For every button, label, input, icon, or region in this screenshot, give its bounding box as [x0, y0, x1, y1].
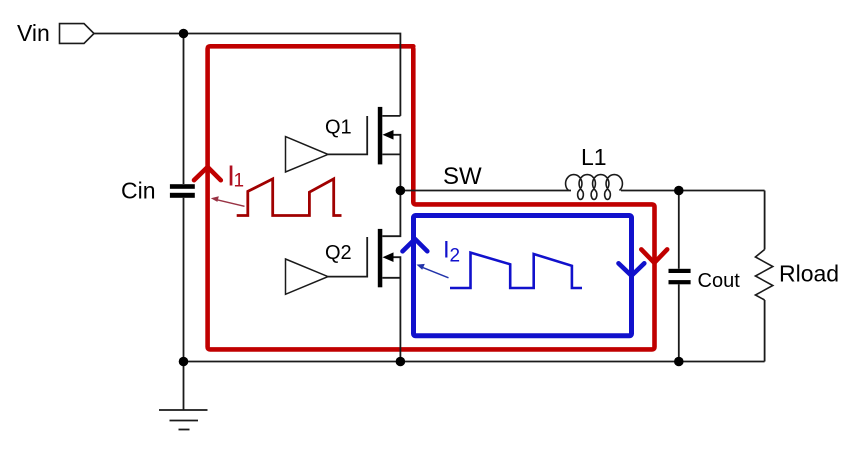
svg-text:Cout: Cout [698, 270, 741, 292]
node SW junction [396, 186, 406, 196]
resistor Rload [755, 250, 772, 301]
transistor Q1 (high-side NMOS) [328, 107, 400, 191]
wire: Vin top rail [94, 34, 400, 116]
inductor L1 [566, 175, 623, 200]
svg-text:Q1: Q1 [325, 116, 352, 138]
blue waveform (Q2 current) [450, 253, 582, 288]
svg-text:1: 1 [234, 170, 245, 191]
ground [159, 362, 208, 430]
node: ground rail right junction [674, 357, 684, 367]
red current loop I1 [208, 46, 655, 349]
red waveform (Q1 current) [237, 179, 342, 216]
wire: output node down to Cout [678, 191, 680, 269]
blue annotation arrow from I2 to loop edge [421, 267, 449, 278]
capacitor Cin [170, 184, 195, 189]
wire: left rail upper (to Cin) [183, 34, 185, 185]
svg-text:Cin: Cin [121, 177, 156, 203]
wire: Rload bottom [764, 300, 766, 362]
transistor Q2 (low-side NMOS) [328, 191, 400, 362]
wire: inductor to output node [621, 190, 765, 192]
node: output junction [674, 186, 684, 196]
blue current loop I2 [414, 216, 632, 336]
red annotation arrow from I1 to loop edge [215, 199, 245, 206]
svg-text:L1: L1 [581, 144, 607, 170]
wire: SW node to inductor [400, 190, 571, 192]
red arrow down on right edge of red loop [641, 249, 667, 262]
node: Vin junction [179, 29, 189, 39]
wire: bottom ground rail [184, 361, 765, 363]
Vin input terminal [60, 24, 95, 44]
node: ground rail middle junction [396, 357, 406, 367]
svg-text:SW: SW [443, 163, 482, 190]
blue arrow up on left edge of blue loop [403, 239, 428, 251]
gate driver buffer for Q2 [286, 259, 329, 294]
wire: Cout to bottom rail [678, 284, 680, 361]
capacitor Cout [669, 269, 691, 273]
wire: Rload branch top [764, 191, 766, 250]
svg-text:Vin: Vin [17, 20, 50, 46]
gate driver buffer for Q1 [286, 137, 329, 172]
red arrow up on left edge of red loop [194, 167, 221, 180]
svg-text:Q2: Q2 [325, 242, 352, 264]
node: ground rail left junction [179, 357, 189, 367]
svg-text:Rload: Rload [779, 260, 839, 286]
wire: left rail lower (Cin to ground rail) [183, 198, 185, 362]
svg-text:2: 2 [450, 246, 461, 267]
blue arrow down on right edge of blue loop [619, 263, 645, 275]
